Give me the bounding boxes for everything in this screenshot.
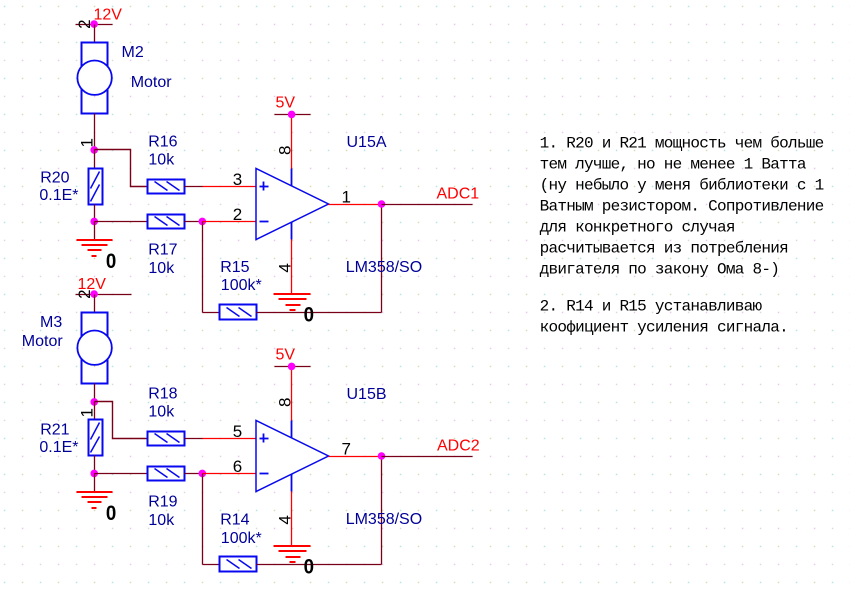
svg-text:0.1E*: 0.1E*	[39, 439, 78, 456]
wire op-amp U15B output pin 7	[329, 456, 382, 458]
wire R15 to output node D	[257, 205, 382, 313]
node F (R21 / R19 / ground junction)	[90, 470, 98, 478]
node 5V bottom junction dot	[288, 363, 296, 371]
svg-text:расчитывается из потребления: расчитывается из потребления	[540, 240, 788, 258]
op-amp U15B pin 8	[276, 367, 295, 438]
svg-text:U15A: U15A	[347, 134, 387, 151]
node 5V top junction dot	[288, 111, 296, 119]
node 12V top junction dot	[90, 20, 98, 28]
svg-text:LM358/SO: LM358/SO	[346, 259, 422, 276]
svg-text:0: 0	[106, 250, 116, 273]
node G (R19 / R14 / op-amp pin 6 junction)	[199, 470, 207, 478]
resistor R20 0.1E*	[39, 169, 102, 205]
wire node G to R14	[203, 474, 220, 565]
wire R14 to output node H	[257, 457, 382, 565]
svg-text:1: 1	[78, 138, 97, 147]
wire node C to op-amp pin 2	[203, 221, 257, 223]
svg-text:R18: R18	[148, 386, 177, 403]
pin number 6	[233, 457, 242, 476]
node C (R17 / R15 / op-amp pin 2 junction)	[199, 218, 207, 226]
pin number 3	[233, 170, 242, 189]
wire node F to R19	[95, 473, 148, 475]
wire node E to R21	[94, 402, 96, 420]
node H (output / R14 / ADC2 junction)	[378, 452, 386, 460]
wire node C to R15	[203, 222, 220, 313]
pin number 7	[342, 440, 351, 459]
op-amp U15B	[256, 386, 422, 528]
power +12V (top)	[76, 7, 123, 25]
svg-text:0.1E*: 0.1E*	[39, 187, 78, 204]
svg-text:ADC1: ADC1	[437, 186, 480, 203]
svg-text:12V: 12V	[94, 7, 123, 24]
svg-text:2: 2	[233, 205, 242, 224]
svg-text:10k: 10k	[148, 512, 175, 529]
wire R19 to node G	[185, 473, 203, 475]
svg-text:Motor: Motor	[131, 74, 173, 91]
svg-text:5V: 5V	[276, 95, 296, 112]
ground (op-amp U15B pin 4)	[274, 546, 314, 579]
power 5V (top)	[275, 95, 311, 115]
resistor R15 100k*	[220, 259, 262, 319]
svg-text:R17: R17	[148, 242, 177, 259]
svg-text:4: 4	[276, 263, 295, 272]
svg-text:LM358/SO: LM358/SO	[346, 511, 422, 528]
resistor R16 10k	[148, 134, 185, 194]
svg-text:7: 7	[342, 440, 351, 459]
svg-text:10k: 10k	[148, 403, 175, 420]
op-amp U15A pin 4	[276, 223, 295, 295]
svg-text:2. R14 и R15 устанавливаю: 2. R14 и R15 устанавливаю	[540, 298, 763, 316]
svg-text:8: 8	[276, 146, 295, 155]
node A (motor M2 / R20 / R16 junction)	[90, 146, 98, 154]
power +12V (bottom)	[76, 276, 132, 295]
op-amp U15A	[256, 134, 422, 276]
svg-text:5V: 5V	[276, 347, 296, 364]
wire node E to R18	[95, 402, 148, 439]
svg-text:ADC2: ADC2	[437, 438, 480, 455]
node B (R20 / R17 / ground junction)	[90, 218, 98, 226]
pin number 2 (motor M3 pin 2, rotated)	[75, 289, 94, 298]
wire node D to ADC1	[382, 204, 473, 206]
wire 12V to motor M3	[94, 295, 96, 313]
svg-text:коофициент усиления сигнала.: коофициент усиления сигнала.	[540, 319, 788, 337]
node D (output / R15 / ADC1 junction)	[378, 200, 386, 208]
wire node A to R16	[95, 150, 148, 187]
resistor R21 0.1E*	[39, 420, 102, 457]
resistor R17 10k	[148, 215, 185, 277]
motor M2	[77, 43, 172, 114]
svg-text:0: 0	[304, 555, 314, 578]
svg-text:R21: R21	[40, 421, 69, 438]
svg-text:5: 5	[233, 422, 242, 441]
ground (op-amp U15A pin 4)	[274, 294, 314, 327]
svg-text:0: 0	[106, 502, 116, 525]
resistor R19 10k	[148, 467, 185, 529]
svg-text:U15B: U15B	[347, 386, 387, 403]
svg-text:Ватным резистором. Сопротивлен: Ватным резистором. Сопротивление	[540, 198, 824, 216]
motor M3	[22, 313, 112, 384]
wire motor M3 to node E	[94, 384, 96, 402]
ground (node B, under R20)	[77, 222, 117, 274]
svg-text:2: 2	[75, 19, 94, 28]
wire R21 to node F	[94, 456, 96, 474]
wire R20 to node B	[94, 205, 96, 222]
wire node G to op-amp pin 6	[203, 473, 257, 475]
svg-text:3: 3	[233, 170, 242, 189]
svg-text:10k: 10k	[148, 151, 175, 168]
svg-text:8: 8	[276, 398, 295, 407]
resistor R14 100k*	[220, 511, 262, 571]
svg-text:100k*: 100k*	[221, 530, 262, 547]
net label ADC2	[437, 438, 480, 455]
svg-text:100k*: 100k*	[221, 277, 262, 294]
svg-text:R19: R19	[148, 494, 177, 511]
wire R16 to op-amp pin 3	[185, 186, 257, 188]
op-amp U15A pin 8	[276, 115, 295, 186]
svg-text:1. R20 и R21 мощность чем боль: 1. R20 и R21 мощность чем больше	[540, 135, 824, 153]
svg-text:6: 6	[233, 457, 242, 476]
pin number 2	[233, 205, 242, 224]
wire node B to R17	[95, 221, 148, 223]
net label ADC1	[437, 186, 480, 203]
svg-text:R20: R20	[40, 169, 69, 186]
svg-text:1: 1	[342, 188, 351, 207]
wire R18 to op-amp pin 5	[185, 438, 257, 440]
note text block	[540, 135, 824, 337]
node 12V bottom junction dot	[90, 290, 98, 298]
svg-text:тем лучше, но не менее 1 Ватта: тем лучше, но не менее 1 Ватта	[540, 156, 807, 174]
svg-text:4: 4	[276, 515, 295, 524]
pin number 1	[342, 188, 351, 207]
wire motor M2 to node A	[94, 114, 96, 150]
svg-text:Motor: Motor	[22, 333, 64, 350]
svg-text:для конкретного случая: для конкретного случая	[540, 219, 735, 237]
wire op-amp U15A output pin 1	[329, 204, 382, 206]
pin number 2 (motor M2 pin 2, rotated)	[75, 19, 94, 28]
wire node H to ADC2	[382, 456, 473, 458]
svg-text:(ну небыло у меня библиотеки с: (ну небыло у меня библиотеки с 1	[540, 177, 824, 195]
resistor R18 10k	[148, 386, 185, 446]
svg-text:двигателя по закону Ома 8-): двигателя по закону Ома 8-)	[540, 261, 780, 279]
pin number 5	[233, 422, 242, 441]
power 5V (bottom)	[275, 347, 311, 367]
node E (motor M3 / R21 / R18 junction)	[90, 398, 98, 406]
ground (node F, under R21)	[77, 474, 117, 526]
svg-text:1: 1	[78, 408, 97, 417]
wire node A to R20	[94, 150, 96, 169]
svg-text:M2: M2	[122, 44, 144, 61]
svg-text:0: 0	[304, 303, 314, 326]
svg-text:2: 2	[75, 289, 94, 298]
op-amp U15B pin 4	[276, 475, 295, 547]
svg-text:10k: 10k	[148, 260, 175, 277]
wire 12V to motor M2	[94, 25, 96, 43]
svg-text:R15: R15	[220, 259, 249, 276]
pin number 1 (motor M2 pin 1, rotated)	[78, 138, 97, 147]
wire R17 to node C	[185, 221, 203, 223]
pin number 1 (motor M3 pin 1, rotated)	[78, 408, 97, 417]
svg-text:R14: R14	[220, 511, 249, 528]
svg-text:M3: M3	[40, 314, 62, 331]
svg-text:R16: R16	[148, 134, 177, 151]
